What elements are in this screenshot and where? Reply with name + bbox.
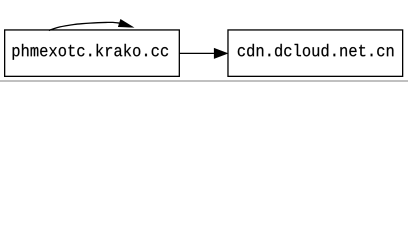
horizontal rule at bottom bbox=[0, 80, 408, 81]
node label cdn.dcloud.net.cn bbox=[238, 44, 394, 57]
arrowhead of self-loop bbox=[118, 19, 133, 27]
node label phmexotc.krako.cc bbox=[13, 44, 169, 60]
arrowhead of edge to cdn.dcloud.net.cn bbox=[214, 48, 228, 58]
node box phmexotc.krako.cc bbox=[5, 30, 180, 76]
self-loop edge phmexotc.krako.cc -> phmexotc.krako.cc (arc) bbox=[49, 22, 120, 30]
edge phmexotc.krako.cc -> cdn.dcloud.net.cn (shaft) bbox=[179, 52, 214, 54]
node box cdn.dcloud.net.cn bbox=[228, 30, 403, 76]
